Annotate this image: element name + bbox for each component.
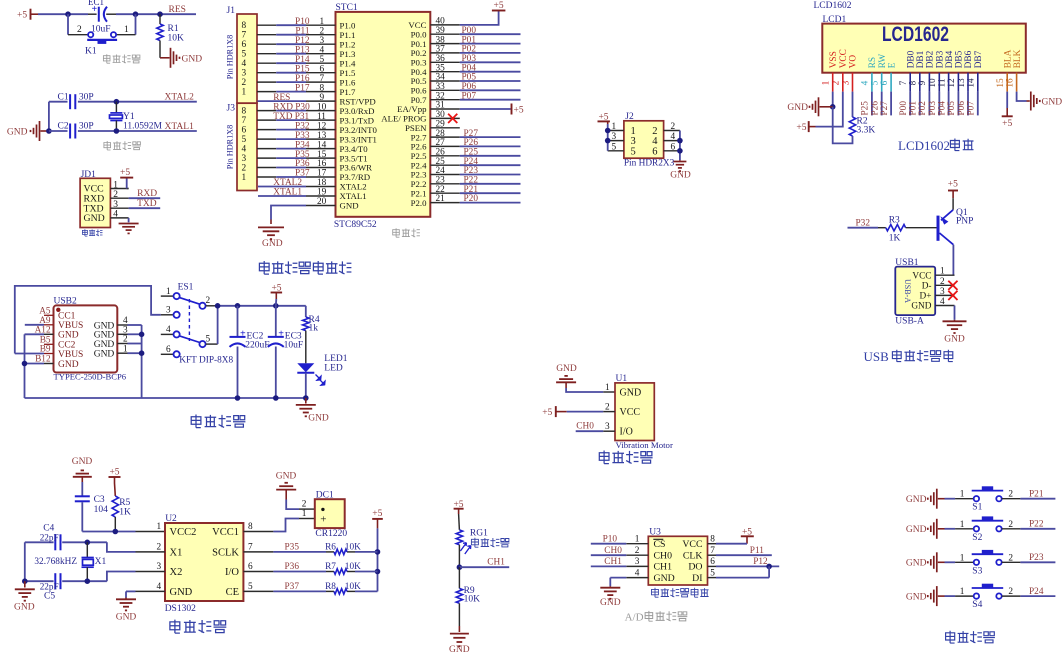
ground GND (DC1) <box>276 471 297 499</box>
svg-text:GND: GND <box>944 335 965 345</box>
USB1 pin stubs <box>935 275 954 305</box>
svg-text:GND: GND <box>7 128 28 138</box>
svg-text:6: 6 <box>242 126 247 136</box>
ground GND (S4) <box>906 586 945 606</box>
svg-text:GND: GND <box>308 414 329 424</box>
wire XTAL2 to mcu <box>258 186 336 188</box>
JD1 pin stubs <box>110 189 128 218</box>
svg-text:P14: P14 <box>295 55 310 65</box>
mcu pin29 stub <box>430 127 460 129</box>
label Pin HDR2X3 <box>624 159 675 169</box>
svg-text:P3.7/RD: P3.7/RD <box>340 172 371 182</box>
svg-text:8: 8 <box>248 522 253 532</box>
svg-text:+5: +5 <box>948 180 958 190</box>
svg-text:6: 6 <box>671 142 676 152</box>
power +5 (mcu pin40) <box>430 1 505 25</box>
wire R3 to base <box>906 227 937 229</box>
USB2 left pin names inside <box>58 312 83 370</box>
USB2 left outside labels <box>35 307 51 365</box>
net label CH1 <box>487 558 505 568</box>
svg-text:7: 7 <box>242 116 247 126</box>
svg-text:13: 13 <box>317 131 327 141</box>
ground GND (lcd BLK) <box>1027 92 1063 111</box>
svg-text:P32: P32 <box>856 218 871 228</box>
wire XTAL1 <box>114 128 197 134</box>
USB2 right pin numbers <box>123 316 128 354</box>
J1 pin numbers <box>242 21 247 97</box>
DC1 pin numbers <box>302 500 307 520</box>
svg-text:1: 1 <box>302 509 307 519</box>
svg-text:3: 3 <box>320 36 325 46</box>
label 独立按键 <box>946 631 995 643</box>
net label XTAL2 <box>165 93 195 103</box>
svg-text:LCD1602: LCD1602 <box>882 23 949 46</box>
wire lcd VCC to +5 <box>816 92 843 127</box>
svg-text:4: 4 <box>940 297 945 307</box>
ground GND (mcu) <box>258 220 284 250</box>
label 时钟电路 <box>170 620 226 634</box>
U3 left pin numbers <box>635 535 640 579</box>
label Vibration Motor <box>616 440 673 450</box>
svg-text:14: 14 <box>317 140 327 150</box>
connector J3 box <box>227 103 258 190</box>
net label P32 <box>856 218 871 228</box>
wire Q1 emitter <box>952 198 954 210</box>
svg-text:5: 5 <box>631 146 636 157</box>
net labels P27-P20 <box>464 129 479 204</box>
U3 pin names <box>653 539 702 584</box>
net label P21 <box>1029 490 1044 500</box>
svg-text:RES: RES <box>169 5 186 15</box>
label 32.768kHZ <box>34 557 77 567</box>
mcu pin numbers 28-21 <box>436 129 446 204</box>
wire gnd to S1 <box>945 498 974 500</box>
switch ES1 <box>161 283 218 358</box>
wire R2 to gnd <box>833 107 853 144</box>
svg-text:R7: R7 <box>325 562 336 572</box>
svg-text:7: 7 <box>242 31 247 41</box>
U2 right pin numbers <box>248 522 253 592</box>
svg-text:GND: GND <box>906 592 927 602</box>
svg-text:2: 2 <box>635 546 640 556</box>
power +5 (U1) <box>542 406 567 418</box>
svg-text:P3.4/T0: P3.4/T0 <box>340 144 369 154</box>
J3 pin numbers <box>242 107 247 183</box>
wire S3 to P23 <box>1002 561 1056 563</box>
svg-text:P33: P33 <box>295 131 310 141</box>
wire P36 row <box>243 571 377 573</box>
switch S1 <box>960 486 1014 512</box>
mcu pin number 31 <box>436 101 446 111</box>
mcu STC1 box <box>334 3 430 230</box>
svg-text:6: 6 <box>242 40 247 50</box>
wire mcu pin20 GND <box>271 206 336 220</box>
svg-text:C2: C2 <box>58 122 69 132</box>
svg-text:P12: P12 <box>753 557 768 567</box>
svg-text:CH1: CH1 <box>487 558 505 568</box>
lcd pin stubs <box>833 73 1017 92</box>
mcu pin numbers 39-32 <box>436 26 446 101</box>
wire crystal gnd <box>22 542 28 584</box>
ground GND (USB1) <box>943 320 967 345</box>
svg-text:GND: GND <box>58 360 79 370</box>
svg-text:RES: RES <box>273 93 290 103</box>
svg-text:USB: USB <box>864 349 890 364</box>
wires U3 inputs <box>591 544 627 567</box>
wire RXD <box>129 197 161 199</box>
svg-text:BLK: BLK <box>1013 49 1023 68</box>
J2 right stubs <box>664 131 680 151</box>
svg-text:21: 21 <box>436 194 446 204</box>
connector JD1 box <box>80 170 110 228</box>
svg-text:GND: GND <box>340 201 359 211</box>
svg-text:2: 2 <box>123 335 128 345</box>
svg-text:104: 104 <box>94 505 109 515</box>
net label P37 <box>285 582 300 592</box>
svg-text:6: 6 <box>652 146 657 157</box>
svg-text:P10: P10 <box>295 17 310 27</box>
svg-text:VCC2: VCC2 <box>170 527 197 538</box>
svg-text:P11: P11 <box>295 26 309 36</box>
svg-text:P22: P22 <box>1029 520 1044 530</box>
svg-text:DB6: DB6 <box>964 50 974 68</box>
svg-text:12: 12 <box>317 121 327 131</box>
wire DI loop <box>716 566 769 577</box>
net label P22 <box>1029 520 1044 530</box>
svg-text:3.3K: 3.3K <box>857 126 876 136</box>
svg-text:Pin HDR1X8: Pin HDR1X8 <box>226 125 235 169</box>
svg-text:4: 4 <box>242 145 247 155</box>
svg-text:DB5: DB5 <box>955 50 965 68</box>
svg-text:+: + <box>320 514 326 526</box>
USB2 right pin names inside <box>94 321 115 359</box>
label KFT DIP-8X8 <box>179 356 233 366</box>
svg-text:P24: P24 <box>1029 587 1044 597</box>
svg-text:1: 1 <box>166 287 171 297</box>
power +5 (lcd BLA) <box>1002 108 1013 129</box>
svg-text:P23: P23 <box>1029 553 1044 563</box>
U3 right pin numbers <box>710 535 715 579</box>
no-connect D- <box>948 281 957 290</box>
svg-text:XTAL1: XTAL1 <box>165 122 195 132</box>
U1 pin numbers <box>605 383 610 432</box>
svg-text:P3.6/WR: P3.6/WR <box>340 163 373 173</box>
mcu left pin numbers 1-8 <box>320 17 325 93</box>
mcu left pin names <box>340 20 378 210</box>
wire XTAL1 to mcu <box>258 195 336 197</box>
svg-text:STC1: STC1 <box>336 3 358 13</box>
ground GND (U3) <box>600 586 621 608</box>
wire U2 gnd <box>126 591 165 597</box>
svg-text:XTAL1: XTAL1 <box>340 191 367 201</box>
svg-text:DB7: DB7 <box>974 50 984 68</box>
svg-text:5: 5 <box>242 135 247 145</box>
svg-text:RG1: RG1 <box>470 529 488 539</box>
svg-text:17: 17 <box>317 169 327 179</box>
svg-text:GND: GND <box>72 457 93 467</box>
svg-text:XTAL1: XTAL1 <box>273 188 302 198</box>
svg-text:P27: P27 <box>880 101 890 116</box>
svg-text:I/O: I/O <box>620 427 633 438</box>
connector USB1 box <box>895 258 935 315</box>
wire gnd to S2 <box>945 528 974 530</box>
svg-text:7: 7 <box>899 80 909 85</box>
svg-text:1: 1 <box>612 122 617 132</box>
label USB灯控制电路 <box>864 349 953 364</box>
svg-text:+5: +5 <box>514 105 524 115</box>
capacitor C2 <box>49 122 117 139</box>
connector J2 box <box>624 112 664 158</box>
svg-text:220uF: 220uF <box>245 341 269 351</box>
capacitor EC1 <box>88 0 111 35</box>
svg-text:RXD: RXD <box>137 189 157 199</box>
wire C4 to X1 pin2 <box>85 540 166 552</box>
svg-text:P1.7: P1.7 <box>340 87 356 97</box>
svg-text:C3: C3 <box>94 495 105 505</box>
mcu pin number 18 <box>317 178 327 188</box>
J2 inside numbers <box>631 126 659 157</box>
svg-text:30P: 30P <box>79 122 94 132</box>
wire J2 left vertical <box>605 124 611 151</box>
svg-text:P1.3: P1.3 <box>340 49 356 59</box>
power +5 (power rail) <box>271 283 283 306</box>
net labels P00-P07 (lcd) <box>899 101 977 116</box>
USB2 pin A12 wire <box>25 333 54 335</box>
wire J2 right vertical <box>677 131 683 161</box>
wire RES net <box>38 11 196 17</box>
svg-text:8: 8 <box>242 107 247 117</box>
led LED1 <box>297 354 347 385</box>
svg-text:P3.2/INT0: P3.2/INT0 <box>340 125 378 135</box>
svg-text:J2: J2 <box>625 112 634 122</box>
net label P10 (U3) <box>603 535 618 545</box>
svg-text:3: 3 <box>612 132 617 142</box>
svg-text:+5: +5 <box>372 509 382 519</box>
svg-text:20: 20 <box>317 197 327 207</box>
wire DC1 pin1 <box>243 519 314 532</box>
svg-text:GND: GND <box>58 331 79 341</box>
mcu pin number 9 <box>320 93 325 103</box>
wire S1 to P21 <box>1002 498 1056 500</box>
svg-text:P36: P36 <box>295 159 310 169</box>
JD1 pin numbers <box>113 180 118 219</box>
power +5 (mcu pin31) <box>430 104 524 116</box>
svg-text:16: 16 <box>317 159 327 169</box>
svg-text:22pF: 22pF <box>40 582 59 592</box>
label USB-A <box>895 317 924 327</box>
label 电源电路 <box>191 415 245 428</box>
mcu pin number 29 <box>436 120 446 130</box>
svg-text:1: 1 <box>960 553 965 563</box>
J3 label Pin HDR1X8 <box>226 125 235 169</box>
lcd pin numbers <box>822 78 1016 88</box>
svg-text:TXD P31: TXD P31 <box>273 112 309 122</box>
svg-text:DB1: DB1 <box>916 50 926 68</box>
svg-text:LCD1602: LCD1602 <box>814 1 852 11</box>
ground GND (crystal clock) <box>14 581 35 612</box>
no-connect D+ <box>948 291 957 300</box>
svg-text:+5: +5 <box>109 467 119 477</box>
svg-text:X2: X2 <box>170 567 183 578</box>
mcu pin number 30 <box>436 110 446 120</box>
svg-text:P13: P13 <box>295 45 310 55</box>
svg-text:11: 11 <box>317 112 326 122</box>
net label P11 <box>750 546 764 556</box>
svg-text:3: 3 <box>940 287 945 297</box>
net labels RXD P30 / TXD P31 / P32-P37 <box>273 102 310 178</box>
lcd title LCD1602 <box>882 23 949 46</box>
svg-text:10: 10 <box>317 102 327 112</box>
svg-text:GND: GND <box>276 471 297 481</box>
svg-text:U1: U1 <box>616 374 628 384</box>
ground GND (C3) <box>72 457 93 482</box>
connector J1 box <box>227 6 258 103</box>
svg-text:10K: 10K <box>345 542 361 552</box>
net label P36 <box>285 562 300 572</box>
svg-text:P05: P05 <box>947 101 957 116</box>
svg-text:GND: GND <box>182 54 203 64</box>
svg-text:USB-A: USB-A <box>895 317 924 327</box>
svg-text:DB0: DB0 <box>906 50 916 68</box>
net label XTAL2 (mcu) <box>273 178 302 188</box>
svg-text:+5: +5 <box>1002 119 1012 129</box>
mcu pin number 40 <box>436 17 446 27</box>
svg-text:P37: P37 <box>285 582 300 592</box>
svg-text:R1: R1 <box>168 24 179 34</box>
svg-text:10K: 10K <box>345 562 361 572</box>
wires lcd DB0-DB7 <box>910 92 978 116</box>
svg-text:2: 2 <box>157 542 162 552</box>
capacitor C1 <box>49 92 117 109</box>
wires P27-P20 <box>430 137 520 203</box>
wire lcd VSS to gnd <box>830 92 836 110</box>
wire XTAL2 <box>114 99 197 105</box>
power +5 (reset) <box>17 9 38 21</box>
svg-text:USB-A: USB-A <box>903 279 912 303</box>
svg-text:+5: +5 <box>796 123 806 133</box>
svg-text:S3: S3 <box>972 566 982 576</box>
svg-text:P1.1: P1.1 <box>340 30 356 40</box>
svg-text:X1: X1 <box>170 547 183 558</box>
ground GND (lcd) <box>787 97 832 116</box>
USB2 right stubs <box>117 325 141 353</box>
wire lcd VO to R2 <box>852 92 854 117</box>
svg-text:10K: 10K <box>345 582 361 592</box>
svg-text:CH1: CH1 <box>604 557 622 567</box>
mcu pin number 19 <box>317 188 327 198</box>
svg-text:GND: GND <box>170 587 193 598</box>
svg-text:CH1: CH1 <box>654 562 673 573</box>
svg-text:1: 1 <box>940 267 945 277</box>
svg-text:P02: P02 <box>918 101 928 116</box>
ground GND (U1 top) <box>556 364 577 388</box>
svg-text:GND: GND <box>94 340 115 350</box>
svg-text:1: 1 <box>242 173 247 183</box>
svg-text:STC89C52: STC89C52 <box>334 220 377 230</box>
svg-text:VBUS: VBUS <box>58 321 83 331</box>
svg-text:1K: 1K <box>119 508 131 518</box>
power +5 (R5) <box>109 467 121 483</box>
svg-text:S4: S4 <box>972 600 982 610</box>
crystal X1 <box>82 542 107 581</box>
svg-text:CH0: CH0 <box>604 546 622 556</box>
wire U3 gnd <box>610 578 648 587</box>
wire P35 row <box>243 551 377 553</box>
lcd LCD1 box <box>822 15 1026 73</box>
svg-text:P17: P17 <box>295 83 310 93</box>
ground GND (S1) <box>906 489 945 509</box>
net label P23 <box>1029 553 1044 563</box>
svg-text:GND: GND <box>670 171 691 181</box>
svg-text:GND: GND <box>654 573 675 584</box>
svg-text:P21: P21 <box>1029 490 1044 500</box>
J2 outside numbers right <box>671 122 676 152</box>
svg-text:1: 1 <box>242 88 247 98</box>
svg-text:CR1220: CR1220 <box>315 529 347 539</box>
svg-text:P3.1/TxD: P3.1/TxD <box>340 115 374 125</box>
svg-text:2: 2 <box>302 500 307 510</box>
wire Q1 collector <box>952 245 954 276</box>
svg-text:VO: VO <box>849 55 859 69</box>
switch S2 <box>960 516 1014 542</box>
svg-text:1: 1 <box>960 587 965 597</box>
wire U2 vcc2 <box>82 529 165 535</box>
svg-text:+5: +5 <box>17 11 27 21</box>
svg-text:3: 3 <box>157 562 162 572</box>
svg-text:5: 5 <box>242 50 247 60</box>
USB1 vertical label <box>903 279 912 303</box>
svg-text:GND: GND <box>84 213 105 224</box>
svg-text:P3.0/RxD: P3.0/RxD <box>340 106 375 116</box>
svg-text:19: 19 <box>317 188 327 198</box>
svg-text:7: 7 <box>710 546 715 556</box>
wire +5 to RG1 <box>458 514 461 530</box>
svg-text:Y1: Y1 <box>123 112 135 122</box>
resistor R1 <box>157 14 184 58</box>
wire lcd BLK to gnd <box>1017 92 1027 101</box>
label TYPEC-250D-BCP6 <box>54 372 127 382</box>
label 光敏电阻 <box>471 538 509 548</box>
svg-text:1: 1 <box>605 383 610 393</box>
svg-text:4: 4 <box>157 582 162 592</box>
svg-text:CLK: CLK <box>683 551 703 562</box>
svg-text:+5: +5 <box>494 1 504 11</box>
svg-text:2: 2 <box>242 164 247 174</box>
ground GND (reset) <box>160 48 202 68</box>
svg-text:P11: P11 <box>750 546 764 556</box>
svg-text:VCC: VCC <box>839 49 849 68</box>
wire U1 pin1 <box>566 388 615 392</box>
svg-text:8: 8 <box>242 21 247 31</box>
lcd pin names <box>829 49 1023 68</box>
svg-text:E: E <box>887 62 897 68</box>
ground GND (JD1) <box>119 218 139 234</box>
svg-text:GND: GND <box>14 603 35 613</box>
label 晶振电路 <box>104 141 141 150</box>
J2 left stubs <box>608 131 624 151</box>
net label CH0 <box>576 422 594 432</box>
svg-text:P06: P06 <box>957 101 967 116</box>
wire gnd to S3 <box>945 561 974 563</box>
wires P00-P07 <box>430 34 520 100</box>
wire clock +5 rail <box>375 528 381 591</box>
svg-text:C1: C1 <box>58 92 69 102</box>
connector USB2 box <box>54 297 118 373</box>
label LCD1602 (sheet) <box>814 1 852 11</box>
svg-text:P04: P04 <box>937 101 947 116</box>
U2 left pin numbers <box>157 522 162 592</box>
svg-text:CE: CE <box>226 587 239 598</box>
